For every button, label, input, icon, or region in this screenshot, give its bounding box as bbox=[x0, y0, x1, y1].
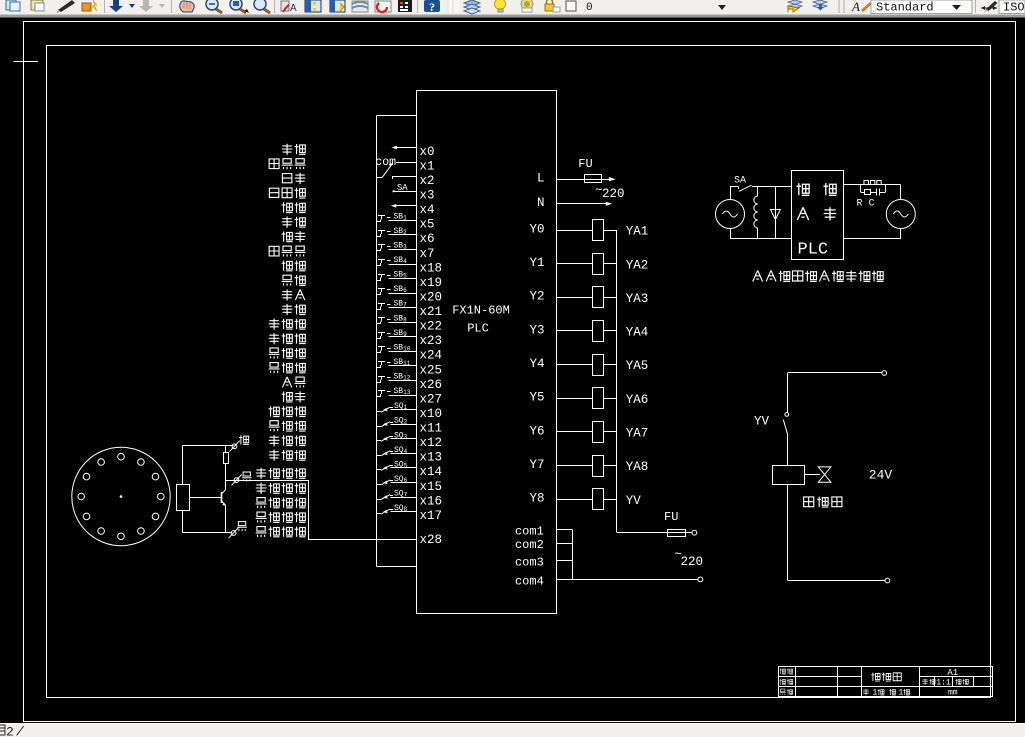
svg-text:x23: x23 bbox=[420, 334, 443, 348]
svg-text:SQ6: SQ6 bbox=[394, 475, 408, 484]
icon redo (disabled) bbox=[139, 0, 153, 12]
wire input x22 bbox=[389, 320, 443, 334]
wire input x16 bbox=[391, 494, 443, 508]
svg-text:Y7: Y7 bbox=[529, 458, 544, 472]
wire L with pin label bbox=[537, 172, 585, 186]
limit switch SQ4 bbox=[377, 446, 408, 456]
pushbutton SB6 bbox=[377, 285, 407, 295]
wire blue signal to x28 bbox=[226, 480, 309, 539]
label 松开 bbox=[282, 391, 306, 402]
svg-text:SQ7: SQ7 bbox=[394, 490, 408, 499]
wire input x26 bbox=[389, 378, 443, 392]
label 手顺转 bbox=[269, 318, 306, 329]
svg-text:x18: x18 bbox=[420, 261, 443, 275]
limit switch SQ6 bbox=[377, 475, 408, 485]
wire input x24 bbox=[389, 349, 443, 363]
terminal 220V neutral bbox=[698, 577, 703, 582]
svg-text:220: 220 bbox=[681, 555, 704, 569]
wire output Y7 bbox=[529, 458, 592, 472]
icon copy bbox=[6, 0, 16, 10]
limit switch SQ7 bbox=[377, 490, 408, 500]
svg-text:SB2: SB2 bbox=[394, 227, 408, 236]
relay coil YA6 bbox=[593, 388, 649, 409]
svg-text:C: C bbox=[869, 199, 875, 210]
label 手顺限位 bbox=[256, 468, 306, 479]
svg-text:YA3: YA3 bbox=[626, 292, 649, 306]
switch SA2 bbox=[734, 176, 752, 192]
svg-text:L: L bbox=[537, 172, 545, 186]
wire com3 bbox=[515, 555, 572, 569]
com bus vertical bbox=[572, 530, 574, 580]
svg-text:SB4: SB4 bbox=[394, 256, 408, 265]
label 前限位 bbox=[269, 406, 306, 416]
wire output Y2 bbox=[529, 290, 592, 304]
svg-text:FX1N-60M: FX1N-60M bbox=[452, 304, 510, 318]
wire input x28 (pulse from encoder) bbox=[308, 533, 442, 547]
separator bbox=[104, 0, 105, 13]
svg-text:com2: com2 bbox=[515, 538, 544, 552]
wire input x0 bbox=[397, 145, 435, 159]
wire solenoid top bbox=[787, 373, 882, 413]
svg-text:Y1: Y1 bbox=[529, 256, 544, 270]
wire output Y5 bbox=[529, 391, 592, 405]
icon pencil bbox=[58, 0, 75, 12]
svg-text:SB10: SB10 bbox=[394, 343, 411, 352]
pushbutton SB13 bbox=[377, 387, 411, 397]
label 手逆限位 bbox=[256, 483, 306, 494]
wire input x10 bbox=[391, 407, 443, 421]
solenoid coil (relay) bbox=[773, 466, 805, 485]
svg-text:x0: x0 bbox=[420, 145, 435, 159]
pushbutton SB12 bbox=[377, 373, 411, 383]
wire com1 bbox=[515, 525, 572, 539]
svg-text:0: 0 bbox=[586, 2, 593, 14]
pushbutton SB7 bbox=[377, 300, 407, 310]
svg-text:N: N bbox=[537, 196, 545, 210]
wire input x17 bbox=[391, 509, 443, 523]
fuse FU1 bbox=[578, 157, 601, 183]
svg-text:R: R bbox=[857, 199, 863, 210]
wire input x15 bbox=[391, 480, 443, 494]
icon tool palettes bbox=[330, 0, 345, 12]
wire input x23 bbox=[389, 334, 443, 348]
transformer primary T1 bbox=[754, 186, 758, 239]
wire G1 top bbox=[730, 186, 738, 199]
svg-text:com4: com4 bbox=[515, 574, 544, 588]
svg-text:A: A bbox=[290, 3, 297, 14]
svg-text:YA6: YA6 bbox=[626, 393, 649, 407]
title block bbox=[778, 666, 993, 698]
label 电磁阀 bbox=[804, 497, 842, 507]
label 下降 bbox=[282, 304, 306, 315]
svg-text:SA: SA bbox=[734, 176, 746, 187]
wire input x27 bbox=[389, 392, 443, 406]
svg-text:x4: x4 bbox=[420, 203, 435, 217]
switch contact YV bbox=[754, 413, 789, 436]
terminal 220V phase bbox=[692, 530, 697, 535]
svg-text:PLC: PLC bbox=[798, 241, 829, 260]
svg-text:x10: x10 bbox=[420, 407, 443, 421]
wire solenoid bottom bbox=[787, 484, 885, 581]
svg-text:x2: x2 bbox=[420, 174, 435, 188]
icon dim style bbox=[981, 7, 997, 9]
wire input x20 bbox=[389, 290, 443, 304]
svg-text:YA4: YA4 bbox=[626, 326, 649, 340]
svg-text:A: A bbox=[851, 0, 860, 14]
label 底旋脉冲 bbox=[256, 527, 306, 538]
wire to transformer bbox=[752, 186, 791, 188]
crosshair cursor bbox=[14, 49, 38, 74]
svg-text:YV: YV bbox=[626, 494, 642, 508]
label ~220 supply bbox=[675, 548, 704, 569]
svg-text:SQ5: SQ5 bbox=[394, 460, 408, 469]
label 底顺限位 bbox=[256, 498, 306, 509]
svg-text:SQ4: SQ4 bbox=[394, 446, 408, 455]
toolbar background bbox=[0, 0, 1025, 15]
svg-text:x11: x11 bbox=[420, 422, 443, 436]
svg-text:x5: x5 bbox=[420, 218, 435, 232]
relay coil YA3 bbox=[593, 287, 649, 308]
label 前行 bbox=[282, 261, 306, 271]
svg-text:SQ2: SQ2 bbox=[394, 417, 408, 426]
label 手逆转 bbox=[269, 333, 306, 344]
pushbutton SB2 bbox=[377, 227, 407, 237]
wire black ground bbox=[183, 511, 233, 533]
pushbutton SB4 bbox=[377, 256, 407, 266]
svg-text:Y4: Y4 bbox=[529, 357, 544, 371]
wire input x5 bbox=[389, 218, 435, 232]
limit switch SQ8 bbox=[377, 504, 408, 514]
pushbutton SB9 bbox=[377, 329, 407, 339]
icon zoom realtime bbox=[206, 0, 218, 10]
terminal 24V+ bbox=[882, 371, 887, 376]
wire output Y0 bbox=[529, 222, 592, 236]
wire red supply bbox=[183, 446, 234, 485]
icon undo bbox=[109, 0, 123, 12]
label 上限位 bbox=[269, 435, 306, 446]
svg-text:SB11: SB11 bbox=[394, 358, 411, 367]
terminal blue 蓝 bbox=[232, 472, 252, 485]
icon zoom window bbox=[230, 0, 242, 10]
limit switch SQ3 bbox=[377, 431, 408, 441]
layer tools bbox=[788, 0, 802, 9]
svg-text:x26: x26 bbox=[420, 378, 443, 392]
svg-text:x3: x3 bbox=[420, 188, 435, 202]
valve symbol bbox=[804, 467, 831, 482]
label 停止 bbox=[282, 231, 306, 242]
svg-text:Y6: Y6 bbox=[529, 424, 544, 438]
limit switch SQ1 bbox=[377, 402, 408, 412]
svg-text:x16: x16 bbox=[420, 494, 443, 508]
svg-text:SQ3: SQ3 bbox=[394, 431, 408, 440]
svg-text:?: ? bbox=[429, 0, 435, 14]
svg-text:FU: FU bbox=[578, 157, 592, 171]
wire input x4 bbox=[397, 203, 435, 217]
terminal 24V- bbox=[885, 578, 890, 583]
label 回原点 bbox=[269, 246, 305, 257]
svg-text:x22: x22 bbox=[420, 320, 443, 334]
wire input x12 bbox=[391, 436, 443, 450]
svg-text:Y3: Y3 bbox=[529, 323, 544, 337]
relay coil YA8 bbox=[593, 456, 649, 477]
svg-text:SQ1: SQ1 bbox=[394, 402, 408, 411]
wire input x3 bbox=[393, 188, 435, 202]
svg-text:YA7: YA7 bbox=[626, 427, 649, 441]
encoder sensor block bbox=[177, 485, 190, 511]
svg-text:Y0: Y0 bbox=[529, 222, 544, 236]
input common bus box bbox=[377, 116, 417, 567]
icon paste bbox=[31, 0, 43, 10]
pushbutton SB10 bbox=[377, 343, 411, 353]
icon match props bbox=[82, 3, 91, 11]
label 开始 bbox=[282, 216, 306, 227]
phototransistor Q1 bbox=[190, 480, 226, 533]
svg-text:220: 220 bbox=[602, 187, 625, 201]
wire com2 bbox=[515, 538, 572, 552]
svg-text:SB3: SB3 bbox=[394, 241, 408, 250]
wire to G2 bbox=[886, 185, 901, 200]
svg-text:x14: x14 bbox=[420, 465, 443, 479]
relay coil YV bbox=[593, 489, 642, 510]
svg-text:SB5: SB5 bbox=[394, 271, 408, 280]
wire to coil bbox=[787, 436, 789, 466]
wire com4 bbox=[515, 574, 698, 588]
icon sun bbox=[521, 0, 533, 10]
wire input x14 bbox=[391, 465, 443, 479]
output bus bbox=[616, 230, 618, 533]
svg-text:/: / bbox=[16, 725, 25, 737]
svg-text:SB12: SB12 bbox=[394, 373, 411, 382]
icon pan hand bbox=[180, 1, 194, 12]
optical encoder disc B1 bbox=[72, 447, 170, 545]
pushbutton SB11 bbox=[377, 358, 411, 368]
wire input x19 bbox=[389, 276, 443, 290]
pushbutton SB8 bbox=[377, 314, 407, 324]
op PLC main unit U1 FX1N-60M bbox=[417, 91, 557, 614]
svg-text:FU: FU bbox=[664, 510, 678, 524]
limit switch SQ2 bbox=[377, 417, 408, 427]
svg-text:x20: x20 bbox=[420, 290, 443, 304]
icon help bbox=[424, 0, 440, 12]
svg-text:YA5: YA5 bbox=[626, 359, 649, 373]
svg-text:1: 1 bbox=[873, 689, 878, 698]
relay coil YA4 bbox=[593, 321, 649, 342]
wire input x25 bbox=[389, 363, 443, 377]
svg-text:SB9: SB9 bbox=[394, 329, 408, 338]
pushbutton SB1 bbox=[377, 212, 407, 222]
svg-text:Y5: Y5 bbox=[529, 391, 544, 405]
wire input x2 bbox=[392, 174, 434, 188]
wire G1 bottom bbox=[730, 229, 791, 240]
svg-text:ISO-: ISO- bbox=[1003, 1, 1025, 15]
selector switch SA (mode select) bbox=[375, 146, 408, 208]
relay coil YA5 bbox=[593, 355, 649, 376]
svg-text:x21: x21 bbox=[420, 305, 443, 319]
icon layers bbox=[464, 0, 480, 6]
label 底逆转 bbox=[269, 363, 306, 374]
icon lock bbox=[545, 4, 554, 11]
wire input x7 bbox=[389, 247, 435, 261]
svg-text:1:1: 1:1 bbox=[936, 679, 951, 688]
svg-text:YA8: YA8 bbox=[626, 460, 649, 474]
svg-text:Standard: Standard bbox=[876, 1, 934, 15]
wire output Y4 bbox=[529, 357, 592, 371]
svg-text:com1: com1 bbox=[515, 525, 544, 539]
wire input x21 bbox=[389, 305, 443, 319]
AC source G2 bbox=[886, 200, 915, 229]
pushbutton SB5 bbox=[377, 271, 407, 281]
wire output Y6 bbox=[529, 424, 592, 438]
wire input x11 bbox=[391, 422, 443, 436]
standard dropdown bbox=[871, 0, 972, 14]
wire N with pin label bbox=[537, 196, 612, 210]
label 单周期 bbox=[269, 188, 305, 198]
label 上升 bbox=[282, 289, 305, 300]
label 底逆限位 bbox=[256, 512, 306, 523]
icon sheet set bbox=[352, 1, 368, 12]
svg-text:x28: x28 bbox=[420, 533, 443, 547]
wire input x13 bbox=[391, 451, 443, 465]
svg-text:x24: x24 bbox=[420, 349, 443, 363]
label 单步 bbox=[282, 173, 305, 184]
wire input x1 bbox=[396, 159, 435, 173]
svg-text:A1: A1 bbox=[947, 668, 958, 678]
svg-text:SB1: SB1 bbox=[394, 212, 408, 221]
terminal black 黑 bbox=[229, 522, 247, 539]
svg-text:x6: x6 bbox=[420, 232, 435, 246]
svg-text:com: com bbox=[375, 156, 396, 169]
icon quickcalc bbox=[398, 0, 412, 12]
svg-text:1: 1 bbox=[899, 689, 904, 698]
wire input x6 bbox=[389, 232, 435, 246]
svg-text:SB6: SB6 bbox=[394, 285, 408, 294]
caption 每个接口输入输出保护 bbox=[753, 270, 884, 282]
wire to 220V with arrow bbox=[595, 177, 624, 201]
fuse FU2 bbox=[617, 510, 692, 537]
relay coil YA2 bbox=[593, 254, 649, 275]
svg-text:2: 2 bbox=[6, 725, 14, 737]
PLC protection box bbox=[792, 171, 844, 260]
wire output Y8 bbox=[529, 492, 592, 506]
label 夹紧 bbox=[282, 377, 305, 388]
svg-text:YV: YV bbox=[754, 415, 770, 429]
relay coil YA1 bbox=[593, 220, 649, 241]
svg-text:x15: x15 bbox=[420, 480, 443, 494]
svg-text:24V: 24V bbox=[869, 468, 893, 483]
svg-text:x13: x13 bbox=[420, 451, 443, 465]
label 回原点 bbox=[269, 159, 305, 170]
limit switch SQ5 bbox=[377, 460, 408, 470]
svg-text:SB8: SB8 bbox=[394, 314, 408, 323]
svg-text:x25: x25 bbox=[420, 363, 443, 377]
svg-text:x19: x19 bbox=[420, 276, 443, 290]
svg-text:x27: x27 bbox=[420, 392, 443, 406]
ISO dropdown bbox=[999, 0, 1025, 14]
resistor R1 pull-up bbox=[224, 446, 229, 481]
icon markup bbox=[375, 1, 391, 12]
icon properties bbox=[281, 1, 289, 11]
svg-text:x12: x12 bbox=[420, 436, 443, 450]
svg-text:com3: com3 bbox=[515, 555, 544, 569]
wire output Y1 bbox=[529, 256, 592, 270]
svg-text:x7: x7 bbox=[420, 247, 435, 261]
svg-text:mm: mm bbox=[948, 688, 958, 697]
command line text fragment bbox=[0, 725, 5, 735]
label 底顺转 bbox=[269, 348, 306, 359]
svg-text:Y2: Y2 bbox=[529, 290, 544, 304]
svg-text:SB7: SB7 bbox=[394, 300, 408, 309]
wire G2 bottom bbox=[843, 229, 900, 240]
label 手动 bbox=[282, 144, 306, 155]
relay coil YA7 bbox=[593, 422, 649, 443]
RC snubber bbox=[843, 181, 885, 210]
svg-text:Y8: Y8 bbox=[529, 492, 544, 506]
label 下限位 bbox=[269, 450, 306, 461]
svg-text:SB13: SB13 bbox=[394, 387, 411, 396]
icon zoom previous bbox=[254, 0, 266, 10]
surge arrester F1 bbox=[770, 186, 780, 239]
wire output Y3 bbox=[529, 323, 592, 337]
icon bulb bbox=[495, 0, 506, 10]
icon color square bbox=[566, 1, 576, 11]
label 连续 bbox=[282, 202, 306, 212]
svg-text:PLC: PLC bbox=[467, 322, 489, 336]
svg-text:YA1: YA1 bbox=[626, 225, 649, 239]
svg-text:x1: x1 bbox=[420, 159, 435, 173]
wire input x18 bbox=[389, 261, 443, 275]
pushbutton SB3 bbox=[377, 241, 407, 251]
svg-text:YA2: YA2 bbox=[626, 258, 649, 272]
AC source G1 bbox=[716, 200, 745, 229]
terminal red 红 bbox=[230, 435, 249, 451]
svg-text:SQ8: SQ8 bbox=[394, 504, 408, 513]
svg-text:x17: x17 bbox=[420, 509, 443, 523]
icon designcenter bbox=[305, 0, 321, 12]
label 后退 bbox=[282, 275, 306, 286]
grips bbox=[447, 0, 449, 13]
label 后限位 bbox=[269, 421, 306, 432]
